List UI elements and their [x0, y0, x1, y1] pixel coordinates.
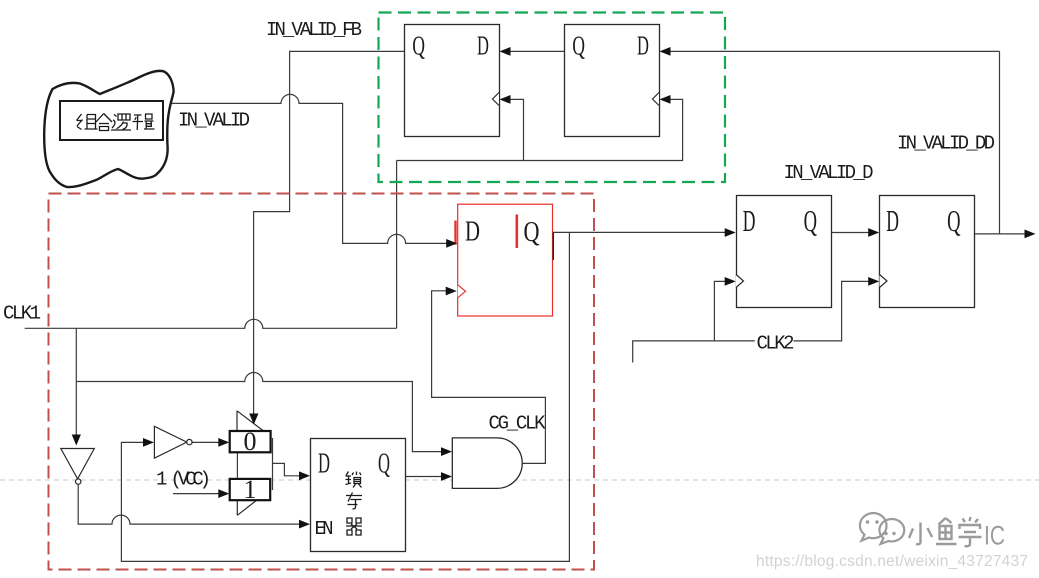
svg-text:Q: Q	[804, 203, 817, 238]
svg-text:1 (VCC): 1 (VCC)	[156, 469, 209, 491]
svg-text:IN_VALID_DD: IN_VALID_DD	[897, 133, 995, 155]
svg-text:EN: EN	[315, 518, 333, 540]
svg-text:https://blog.csdn.net/weixin_4: https://blog.csdn.net/weixin_43727437	[756, 553, 1028, 570]
svg-text:CG_CLK: CG_CLK	[489, 413, 547, 435]
svg-text:IN_VALID_D: IN_VALID_D	[784, 162, 874, 184]
svg-text:Q: Q	[524, 216, 540, 248]
svg-text:Q: Q	[412, 31, 425, 61]
svg-text:D: D	[886, 203, 899, 238]
svg-text:IN_VALID: IN_VALID	[178, 110, 250, 132]
svg-text:CLK2: CLK2	[757, 333, 795, 355]
svg-text:0: 0	[244, 427, 257, 456]
svg-text:D: D	[743, 203, 756, 238]
svg-text:D: D	[477, 31, 489, 61]
svg-text:IN_VALID_FB: IN_VALID_FB	[266, 19, 362, 41]
svg-text:Q: Q	[572, 31, 585, 61]
svg-text:1: 1	[244, 475, 257, 504]
svg-text:D: D	[318, 448, 330, 480]
svg-text:D: D	[637, 31, 649, 61]
svg-text:Q: Q	[378, 448, 390, 480]
svg-text:Q: Q	[947, 203, 960, 238]
svg-text:D: D	[465, 216, 480, 248]
svg-text:IC: IC	[984, 521, 1005, 551]
svg-text:CLK1: CLK1	[3, 303, 41, 325]
